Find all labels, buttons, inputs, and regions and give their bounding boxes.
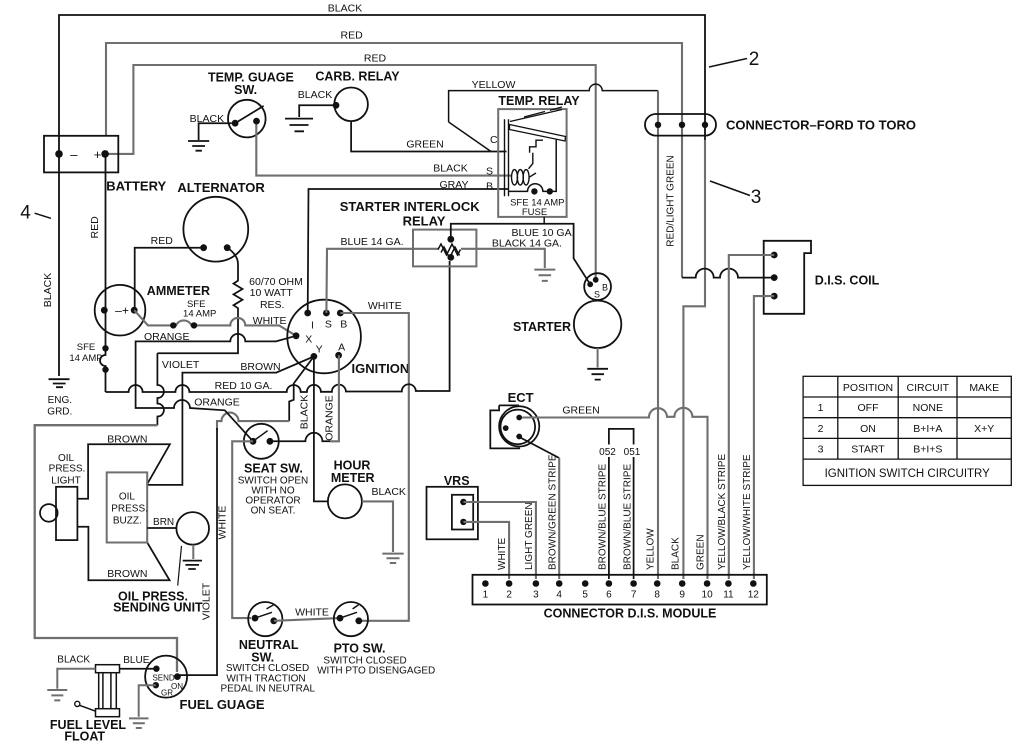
svg-text:CONNECTOR D.I.S. MODULE: CONNECTOR D.I.S. MODULE: [544, 607, 717, 621]
wire hour meter to ground: [362, 501, 393, 552]
svg-text:RED/LIGHT GREEN: RED/LIGHT GREEN: [666, 155, 677, 247]
wire brown light lower loop: [77, 527, 169, 581]
wire blue 14 ga ignition S to interlock relay: [326, 249, 439, 313]
wire fuel gauge lower to ground: [139, 685, 156, 717]
wires pins 6 7 bracket 052 051: [609, 429, 634, 579]
svg-text:FUEL GUAGE: FUEL GUAGE: [180, 697, 265, 712]
svg-text:2: 2: [506, 590, 512, 601]
wire starter to ground: [597, 348, 599, 368]
svg-text:14 AMP: 14 AMP: [183, 308, 216, 319]
svg-text:GREEN: GREEN: [406, 139, 443, 151]
svg-text:ALTERNATOR: ALTERNATOR: [177, 180, 265, 195]
ect connector body: [490, 405, 539, 448]
wire tgs left to ground: [199, 123, 232, 140]
interlock relay resistor zigzag: [438, 244, 461, 258]
svg-text:14 AMP: 14 AMP: [69, 353, 102, 364]
svg-text:IGNITION: IGNITION: [352, 361, 410, 376]
wire black to pin 9 (lower part): [683, 140, 705, 579]
svg-text:ORANGE: ORANGE: [194, 397, 240, 409]
ground float: [47, 690, 67, 700]
svg-text:ON SEAT.: ON SEAT.: [251, 505, 296, 516]
svg-text:BRN: BRN: [153, 517, 174, 528]
svg-text:+: +: [94, 147, 102, 162]
svg-text:BROWN: BROWN: [240, 361, 280, 373]
wire brown ignition Y to violet junction: [147, 356, 314, 485]
pin numbers: [483, 590, 760, 601]
svg-text:SFE: SFE: [77, 342, 95, 353]
svg-text:LIGHT: LIGHT: [51, 476, 80, 487]
connector pins: [482, 580, 756, 587]
svg-text:PRESS.: PRESS.: [49, 464, 86, 475]
svg-text:BROWN/BLUE STRIPE: BROWN/BLUE STRIPE: [598, 464, 609, 570]
wire ignition Y steep diagonal to fuel gauge net: [289, 356, 314, 421]
svg-text:IGNITION SWITCH CIRCUITRY: IGNITION SWITCH CIRCUITRY: [825, 468, 991, 480]
svg-text:PEDAL IN NEUTRAL: PEDAL IN NEUTRAL: [220, 684, 315, 695]
svg-text:7: 7: [631, 590, 637, 601]
temp relay fuse output stub: [543, 217, 545, 224]
temp relay fuse: [509, 140, 556, 192]
starter solenoid: [584, 273, 611, 300]
wire blue 10 ga relay to starter solenoid S: [451, 224, 590, 285]
oil press sending unit circle: [176, 512, 209, 545]
svg-text:S: S: [486, 166, 493, 178]
wire black 14 ga relay to ground: [461, 249, 545, 268]
svg-text:YELLOW: YELLOW: [646, 528, 657, 570]
svg-text:1: 1: [483, 590, 489, 601]
label leader oil press sending: [178, 546, 182, 586]
alternator circle: [183, 197, 248, 262]
svg-text:YELLOW/BLACK STRIPE: YELLOW/BLACK STRIPE: [717, 454, 728, 570]
neutral switch circle: [248, 602, 282, 636]
svg-text:S: S: [594, 290, 600, 300]
oil press buzzer box: [107, 472, 148, 542]
svg-text:I: I: [311, 319, 314, 331]
svg-text:GRAY: GRAY: [440, 179, 469, 191]
svg-text:BLACK: BLACK: [57, 655, 90, 666]
svg-text:BLACK: BLACK: [328, 3, 362, 15]
wire orange ammeter fuse to ignition X: [134, 310, 296, 336]
fuel gauge circle: [145, 656, 187, 698]
svg-text:–+: –+: [115, 304, 129, 318]
svg-text:POSITION: POSITION: [843, 382, 893, 394]
svg-text:WHITE: WHITE: [253, 315, 287, 327]
svg-text:WHITE: WHITE: [368, 300, 402, 312]
svg-text:BLACK: BLACK: [371, 486, 405, 498]
svg-text:A: A: [338, 342, 345, 354]
svg-text:STARTER: STARTER: [513, 320, 571, 334]
float pivot lever: [75, 701, 80, 706]
temp relay contacts diagonals: [510, 107, 562, 122]
svg-text:4: 4: [556, 590, 562, 601]
connector ford to toro stadium: [645, 114, 716, 136]
svg-text:BROWN/GREEN STRIPE: BROWN/GREEN STRIPE: [548, 454, 559, 570]
ground tgs: [188, 141, 209, 151]
svg-text:FLOAT: FLOAT: [64, 729, 105, 743]
svg-text:RES.: RES.: [260, 299, 285, 311]
svg-text:BLACK: BLACK: [671, 537, 682, 570]
svg-text:PRESS.: PRESS.: [111, 504, 148, 515]
fuel level float cylinder: [96, 665, 120, 717]
svg-text:9: 9: [679, 590, 685, 601]
svg-text:C: C: [490, 134, 498, 146]
svg-text:GREEN: GREEN: [696, 534, 707, 570]
svg-text:RED: RED: [89, 216, 101, 239]
svg-text:START: START: [851, 444, 885, 456]
svg-text:60/70 OHM: 60/70 OHM: [249, 276, 303, 288]
svg-text:AMMETER: AMMETER: [147, 284, 210, 298]
svg-text:ENG.: ENG.: [48, 395, 72, 406]
battery box: [44, 136, 118, 173]
wire gray ignition I to temp relay B: [308, 189, 509, 313]
svg-text:NONE: NONE: [913, 402, 943, 414]
svg-text:STARTER INTERLOCK: STARTER INTERLOCK: [340, 199, 480, 214]
svg-text:4: 4: [20, 203, 31, 224]
wire white seat to neutral switch: [232, 441, 253, 618]
wire orange X-Y jumper net (x diag, 135.6 corner, bus2, seat diag): [136, 334, 297, 441]
ignition switch table: [803, 376, 1011, 485]
wire red alternator to ammeter: [135, 248, 204, 311]
svg-text:S: S: [325, 319, 332, 331]
svg-text:OFF: OFF: [858, 402, 879, 414]
svg-text:3: 3: [751, 187, 762, 208]
oil press light lamp: [40, 487, 77, 540]
svg-text:RED: RED: [364, 53, 387, 65]
svg-text:10 WATT: 10 WATT: [250, 287, 294, 299]
svg-text:BLACK: BLACK: [42, 273, 54, 307]
svg-text:SW.: SW.: [251, 650, 274, 664]
svg-text:10: 10: [702, 590, 714, 601]
eng grd ground: [49, 379, 70, 387]
svg-text:BROWN: BROWN: [107, 568, 147, 580]
temp relay blade: [510, 125, 566, 142]
connector D.I.S. module box: [473, 575, 767, 605]
svg-text:B: B: [602, 283, 608, 293]
svg-text:BATTERY: BATTERY: [106, 179, 166, 194]
svg-text:X+Y: X+Y: [974, 423, 994, 435]
wire pin 12 to D.I.S. bottom: [754, 296, 774, 579]
svg-text:5: 5: [582, 590, 588, 601]
svg-text:2: 2: [749, 49, 760, 70]
svg-text:CONNECTOR–FORD TO TORO: CONNECTOR–FORD TO TORO: [726, 117, 916, 132]
svg-text:ECT: ECT: [508, 390, 534, 405]
svg-text:12: 12: [748, 590, 760, 601]
svg-text:BLUE: BLUE: [123, 655, 149, 666]
svg-text:BUZZ.: BUZZ.: [113, 516, 142, 527]
wire sending unit ground stem: [192, 545, 194, 559]
resistor 60/70 ohm: [157, 248, 242, 354]
ignition terminal dots: [304, 310, 311, 317]
wire brn buzzer to sending unit: [147, 527, 176, 529]
svg-text:RELAY: RELAY: [403, 213, 446, 228]
rotated pin wire labels: [497, 454, 753, 570]
wire white resistor down (self hops over buses): [157, 353, 164, 425]
temp relay box: [498, 109, 566, 217]
svg-text:BLUE 14 GA.: BLUE 14 GA.: [340, 236, 403, 248]
svg-text:3: 3: [818, 444, 824, 456]
wire brown light upper to buzzer right: [77, 444, 169, 498]
ground black 14 ga: [534, 270, 555, 281]
svg-text:WITH PTO DISENGAGED: WITH PTO DISENGAGED: [317, 665, 435, 676]
svg-text:METER: METER: [331, 471, 375, 485]
battery terminals: [55, 150, 63, 158]
svg-text:RED 10 GA.: RED 10 GA.: [215, 380, 273, 392]
wire red battery down to ammeter and fuse: [100, 157, 106, 392]
starter circle: [574, 301, 621, 348]
svg-text:SEAT SW.: SEAT SW.: [244, 462, 303, 476]
svg-text:052: 052: [599, 447, 616, 458]
wire gray y-net horizontal 421 with hop over seat diagonal: [217, 413, 289, 430]
wire blue float to fuel gauge: [120, 668, 157, 670]
wire black top bus: [59, 15, 705, 376]
svg-text:MAKE: MAKE: [969, 382, 999, 394]
svg-text:2: 2: [818, 423, 824, 435]
svg-text:OIL: OIL: [58, 453, 75, 464]
svg-text:BROWN: BROWN: [107, 433, 147, 445]
svg-text:BROWN/BLUE STRIPE: BROWN/BLUE STRIPE: [623, 464, 634, 570]
svg-text:SENDING UNIT: SENDING UNIT: [113, 601, 203, 615]
svg-text:RED: RED: [151, 235, 174, 247]
temp relay contact bracket: [529, 140, 544, 169]
svg-text:RED: RED: [341, 30, 364, 42]
wire white ignition B to PTO switch: [340, 313, 409, 621]
wire black ignition Y down to hour meter: [314, 356, 328, 501]
svg-text:YELLOW: YELLOW: [472, 79, 516, 91]
wire carb left to ground: [299, 105, 336, 117]
svg-text:FUSE: FUSE: [522, 207, 547, 218]
svg-text:051: 051: [624, 447, 641, 458]
ground fuel gauge: [129, 718, 149, 728]
svg-text:GR: GR: [161, 689, 173, 698]
wire yellow vertical to pin 8: [657, 91, 659, 579]
svg-text:VRS: VRS: [444, 474, 470, 488]
svg-text:WHITE: WHITE: [295, 607, 329, 619]
ignition switch circle: [287, 300, 361, 374]
svg-text:GRD.: GRD.: [47, 407, 72, 418]
pto switch circle: [334, 602, 368, 636]
svg-text:–: –: [70, 147, 78, 162]
wire red/light green to D.I.S. mid: [682, 269, 774, 278]
wire seat right to ignition A: [270, 433, 330, 442]
svg-text:6: 6: [606, 590, 612, 601]
svg-text:SW.: SW.: [234, 83, 257, 97]
svg-text:WHITE: WHITE: [497, 537, 508, 570]
svg-text:3: 3: [533, 590, 539, 601]
svg-text:ORANGE: ORANGE: [323, 395, 335, 441]
D.I.S. coil box: [764, 241, 811, 314]
wire red (battery + to ign mid): [106, 43, 682, 278]
wire red 10 ga bus: [106, 261, 450, 392]
svg-text:X: X: [305, 333, 312, 345]
ammeter circle: [95, 285, 146, 336]
svg-text:TEMP. RELAY: TEMP. RELAY: [498, 94, 580, 108]
svg-text:CARB. RELAY: CARB. RELAY: [315, 69, 400, 83]
wire green carb to temp relay C: [351, 121, 506, 151]
temp relay coil: [512, 170, 537, 185]
svg-text:BLACK: BLACK: [299, 395, 311, 429]
svg-text:CIRCUIT: CIRCUIT: [907, 382, 950, 394]
svg-text:WHITE: WHITE: [216, 506, 228, 540]
ground sending unit: [183, 561, 202, 569]
svg-text:B: B: [486, 180, 493, 192]
wire ect to pin 4: [521, 438, 559, 458]
oil press harness gray box: [35, 425, 177, 672]
wire green ect to pin 10: [522, 408, 707, 579]
ground carb: [285, 119, 313, 132]
wire pin 11 to D.I.S. top: [729, 255, 774, 579]
svg-text:VIOLET: VIOLET: [162, 359, 200, 371]
svg-text:YELLOW/WHITE STRIPE: YELLOW/WHITE STRIPE: [742, 454, 753, 570]
svg-text:GREEN: GREEN: [562, 405, 599, 417]
starter interlock relay box: [413, 230, 476, 267]
svg-text:LIGHT GREEN: LIGHT GREEN: [524, 502, 535, 570]
ground starter: [587, 369, 608, 380]
svg-text:BLACK: BLACK: [298, 89, 332, 101]
svg-text:1: 1: [818, 402, 824, 414]
hour meter circle: [328, 484, 362, 518]
svg-text:BLACK: BLACK: [433, 163, 467, 175]
wire yellow horizontal: [449, 84, 658, 151]
svg-text:ON: ON: [860, 423, 876, 435]
svg-text:11: 11: [723, 590, 734, 601]
svg-text:Y: Y: [316, 343, 323, 355]
wire tgs right down to temp relay S: [256, 125, 512, 176]
svg-text:BLACK 14 GA.: BLACK 14 GA.: [492, 238, 562, 250]
svg-text:B: B: [340, 319, 347, 331]
wire vrs bottom to pin 2: [463, 522, 509, 579]
wire black float to ground: [57, 669, 95, 689]
wire red 2 (battery + to starter B): [105, 65, 596, 280]
carb relay circle: [334, 88, 368, 122]
wire vrs top to pin 3: [463, 502, 536, 579]
vrs box: [427, 487, 478, 540]
ground hour meter: [382, 554, 403, 563]
temp relay armature bar: [505, 119, 509, 196]
svg-text:B+I+A: B+I+A: [913, 423, 942, 435]
svg-text:8: 8: [654, 590, 660, 601]
svg-text:OIL: OIL: [119, 492, 136, 503]
svg-text:D.I.S. COIL: D.I.S. COIL: [815, 273, 880, 287]
temp guage sw circle: [228, 100, 266, 138]
svg-text:B+I+S: B+I+S: [913, 444, 942, 456]
fuse SFE 14 AMP battery dots: [102, 345, 108, 351]
seat switch circle: [244, 424, 279, 459]
svg-text:PTO SW.: PTO SW.: [334, 642, 386, 656]
wire white neutral to pto: [274, 618, 340, 621]
wire violet vertical to fuel gauge send: [177, 428, 217, 675]
